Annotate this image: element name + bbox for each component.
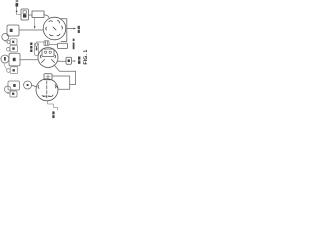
circle Q1 on P1 bottom-left [2, 34, 9, 41]
dark dot inside R1 [12, 41, 14, 43]
wire box 32 to rect 34 [29, 14, 33, 16]
wire circle M2 right to box 46 [58, 60, 66, 62]
circle M3 (lower machine) [36, 79, 58, 101]
tiny label 14 inside circle M3 bottom [43, 96, 50, 97]
dark dot inside R3 [12, 93, 14, 95]
dot inside indicator circle [27, 84, 29, 86]
wire box 44 right side bus to circle M3 [52, 76, 70, 89]
hooks inside circle M3 [38, 85, 58, 97]
rect 34 (empty rectangle, top) [32, 11, 44, 18]
circle M2 (middle machine) [38, 48, 58, 68]
small box R3 [10, 91, 17, 97]
rect P1 (camera body) [7, 25, 19, 36]
small box R2b below P2 [7, 67, 18, 74]
arrow right of box 46 [72, 60, 75, 62]
inline connector 38 on wire between machines [39, 41, 58, 46]
contact square inside box 32 (open) [23, 11, 26, 14]
dark core of cylinder 42 [36, 48, 38, 51]
mark inside Q2 [4, 57, 6, 61]
wire from P2 to circle M2 left [20, 59, 38, 61]
label 52 (rotated numeral, bottom) [52, 111, 54, 118]
wire below circle M3 with step [48, 101, 58, 110]
mark inside box 50 [46, 75, 50, 80]
contact square inside box 32 (filled) [23, 14, 26, 17]
small box R2a with eyelet (above P2) [7, 45, 18, 52]
circle Q2 (with mark) [1, 55, 9, 63]
box 46 (small box with dark dot) [66, 57, 72, 64]
pointer lead from rect 34 down to wire [34, 18, 36, 27]
rect 36 (empty rectangle below stator) [58, 43, 68, 48]
wire from label 30 down into box 32 [17, 7, 21, 15]
label 26 (rotated numeral right of M1) [78, 26, 80, 33]
cylinder component 42 (fork-top tube) [35, 43, 39, 55]
wire cylinder 42 up to circle M1 [37, 42, 39, 43]
dark mark inside P3 [13, 84, 16, 87]
FIG. 1 text (rotated) [83, 50, 89, 65]
dark mark inside P2 [13, 58, 16, 61]
svg-text:FIG. 1: FIG. 1 [83, 50, 89, 65]
spokes inside circle M2 [41, 55, 56, 63]
wire from circle M1 right to terminal [67, 28, 74, 30]
dark dot inside R2b [13, 69, 15, 71]
circle M1 (upper machine) [43, 17, 66, 40]
dark dot inside R2a [12, 47, 14, 49]
junction dot on wire [16, 11, 18, 13]
box 32 (small control box, top left) [21, 9, 29, 20]
dark dot inside box 46 [68, 59, 70, 62]
wire P1 to circle M1 [19, 29, 43, 31]
rect P3 [8, 81, 20, 90]
cable curve from Q3 to R3 [7, 92, 10, 94]
label 30 (rotated numeral, top left) [16, 0, 19, 6]
dark mark inside P1 [10, 29, 13, 32]
wire rect 34 to circle M1 [44, 15, 49, 18]
small box R1 with eyelet [7, 39, 17, 45]
brush hooks inside circle M1 [46, 21, 63, 36]
box 50 on top of circle M3 [44, 74, 52, 80]
box 44 on top of circle M2 with two eyelets [42, 49, 54, 57]
label 48 (rotated numeral) [78, 57, 80, 64]
electrode dashed line inside circle M3 [46, 81, 48, 98]
stator rect behind circle M1 right [60, 19, 67, 42]
wire indicator circle to M3 [32, 85, 37, 87]
wire circle M2 bottom-right down to bus [55, 66, 76, 85]
arrowhead of pointer lead [34, 26, 36, 29]
cable curve from Q1 to R1 eyelet [4, 40, 7, 42]
circle Q3 [4, 86, 11, 93]
cable curve from Q2 to R2b eyelet [4, 63, 7, 70]
label 24 (small rotated numeral below) [73, 39, 75, 50]
terminal arrow dot [74, 28, 76, 30]
rect P2 [9, 53, 20, 66]
indicator circle with dot (left of M3) [24, 81, 32, 89]
label 40 (rotated numeral left, dark dashes) [30, 43, 32, 53]
fork notch inside cylinder 42 [35, 43, 38, 47]
